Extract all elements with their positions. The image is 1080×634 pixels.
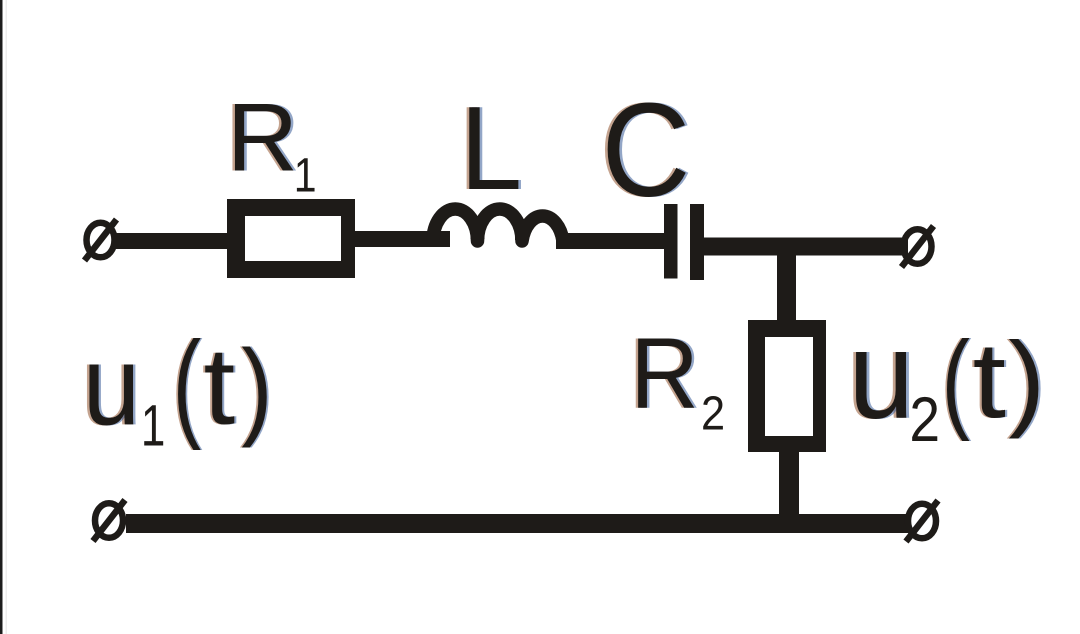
- label L: [457, 83, 524, 215]
- svg-text:R: R: [227, 83, 298, 191]
- inductor L: [433, 209, 563, 241]
- wire R1 to L: [352, 231, 450, 247]
- svg-text:): ): [241, 327, 272, 449]
- svg-text:2: 2: [909, 384, 940, 455]
- svg-text:(: (: [173, 318, 201, 451]
- svg-text:R: R: [630, 317, 698, 429]
- svg-text:C: C: [601, 76, 690, 225]
- resistor R1: [227, 199, 355, 278]
- svg-text:t: t: [204, 324, 236, 447]
- svg-text:2: 2: [701, 385, 725, 440]
- wire R2 to bottom rail: [779, 450, 799, 516]
- svg-text:1: 1: [141, 393, 165, 458]
- wire junction down to R2: [777, 242, 796, 322]
- svg-text:(: (: [942, 318, 970, 442]
- terminal input bottom-left: [93, 500, 125, 541]
- svg-text:L: L: [460, 83, 522, 215]
- bottom rail wire: [126, 514, 908, 533]
- svg-text:u: u: [83, 322, 140, 448]
- capacitor C: [664, 204, 704, 280]
- wire input to R1: [114, 233, 232, 249]
- svg-text:t: t: [973, 321, 1006, 441]
- terminal output bottom-right: [906, 501, 938, 542]
- resistor R2: [748, 320, 826, 452]
- label C: [599, 76, 693, 225]
- terminal output top-right: [902, 226, 934, 267]
- label R1: [224, 83, 316, 202]
- svg-text:): ): [1008, 320, 1045, 440]
- wire C to output terminal: [702, 238, 908, 256]
- terminal input top-left: [85, 220, 117, 261]
- svg-text:1: 1: [294, 150, 317, 203]
- label u2(t): [846, 305, 1048, 455]
- label u1(t): [80, 318, 274, 458]
- svg-text:u: u: [848, 305, 914, 444]
- wire L to C: [556, 233, 666, 249]
- label R2: [628, 317, 725, 440]
